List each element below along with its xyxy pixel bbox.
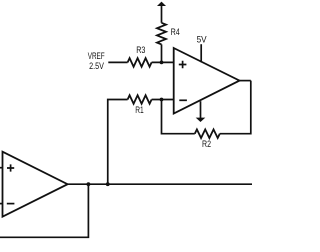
power arrow (V+ supply at top of R4) — [157, 2, 166, 23]
op-amp U1 — [3, 152, 68, 217]
wire 5V supply to op-amp top edge — [200, 44, 202, 62]
label VREF 2.5V — [88, 51, 105, 72]
wire R4 bottom to node A — [161, 44, 163, 62]
wire R1 to op-amp - input — [152, 99, 174, 101]
wire U2 output — [240, 80, 251, 82]
wire VREF to R3 — [108, 61, 127, 63]
node B junction dot — [160, 98, 164, 102]
minus symbol U1 — [7, 203, 15, 205]
resistor R4 — [157, 23, 166, 45]
plus symbol U1 — [7, 164, 14, 171]
node A junction dot — [160, 61, 164, 65]
resistor R2 — [195, 129, 220, 138]
op-amp U2 — [174, 48, 240, 114]
wire R2 to U2 output vertical — [220, 81, 251, 134]
wire feedback tap node B down and right to R2 — [162, 100, 195, 134]
wire R1 left corner and vertical to U1 output rail — [108, 100, 128, 185]
svg-text:2.5V: 2.5V — [89, 61, 104, 72]
node D junction dot — [87, 182, 91, 186]
svg-text:R2: R2 — [202, 139, 211, 150]
node C junction dot — [106, 182, 110, 186]
wire U1 - input stub — [0, 203, 3, 205]
resistor R1 — [128, 95, 152, 104]
minus symbol U2 — [179, 99, 187, 101]
wire R3 to op-amp + input — [152, 61, 174, 63]
svg-text:R3: R3 — [136, 45, 145, 56]
ground (below U2) — [196, 101, 206, 122]
wire U1 + input stub — [0, 167, 3, 169]
wire U1 output rail — [68, 183, 252, 185]
svg-text:5V: 5V — [197, 35, 208, 46]
svg-text:R4: R4 — [171, 27, 180, 38]
svg-text:R1: R1 — [135, 105, 144, 116]
wire U1 feedback down-left to edge — [0, 184, 88, 237]
resistor R3 — [128, 58, 152, 67]
plus symbol U2 — [179, 61, 187, 69]
